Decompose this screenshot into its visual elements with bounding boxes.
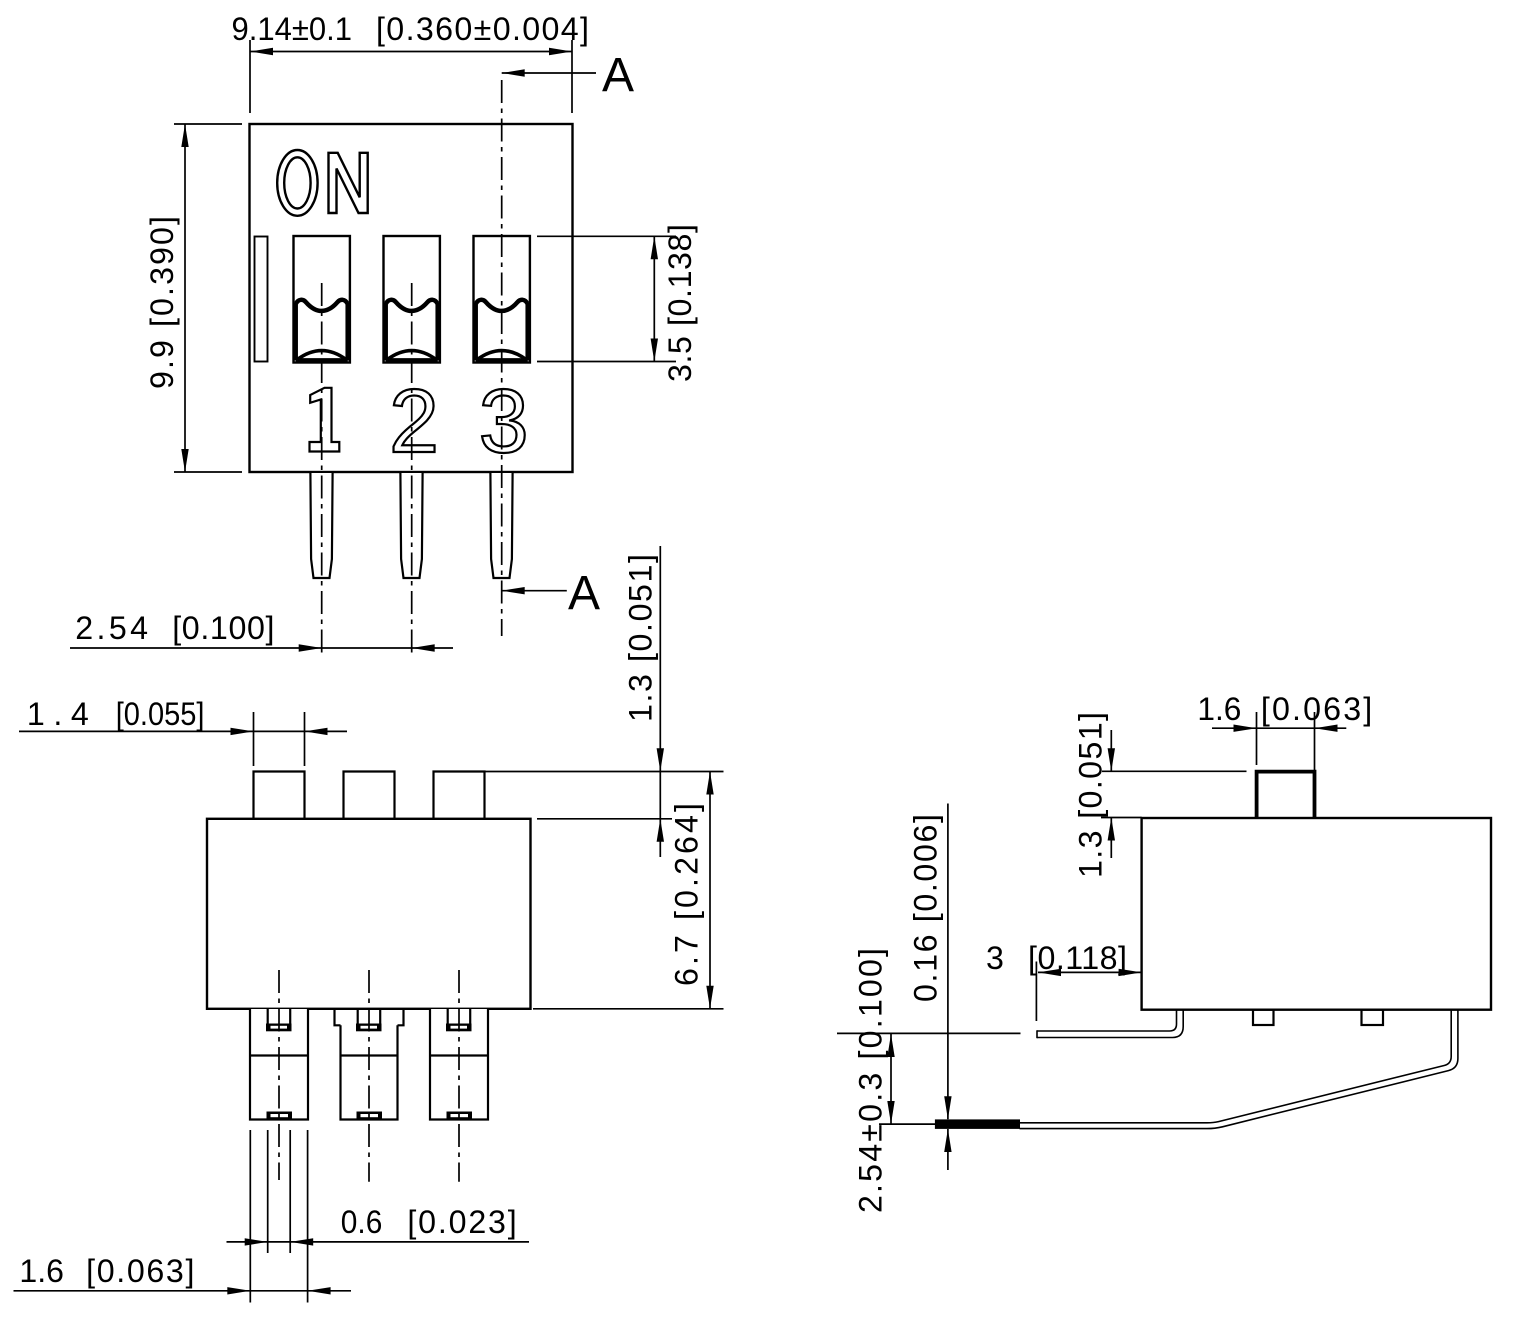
slot 3 (474, 236, 530, 363)
extension line from body bottom (533, 1008, 724, 1010)
svg-text:1.3 [0.051]: 1.3 [0.051] (1073, 712, 1109, 878)
slot 2 (384, 236, 440, 363)
svg-text:2.54±0.3 [0.100]: 2.54±0.3 [0.100] (853, 948, 889, 1213)
pin 1 (front view) (310, 473, 332, 578)
body (side view) (1142, 818, 1491, 1010)
svg-text:6.7 [0.264]: 6.7 [0.264] (669, 803, 705, 986)
svg-text:2.54: 2.54 (75, 610, 148, 646)
svg-text:[0.360±0.004]: [0.360±0.004] (376, 11, 589, 47)
bump 1 (254, 772, 305, 819)
centerline pin1 (321, 283, 323, 655)
section arrow A top (502, 72, 596, 74)
svg-text:[0.063]: [0.063] (1261, 691, 1372, 727)
svg-text:3.5 [0.138]: 3.5 [0.138] (662, 224, 698, 382)
svg-text:A: A (602, 49, 634, 102)
svg-text:1.4: 1.4 (27, 696, 89, 732)
pin 1 (bottom view) (250, 1009, 308, 1120)
svg-text:A: A (568, 567, 600, 620)
svg-text:[0.063]: [0.063] (86, 1253, 194, 1289)
pin 3 (front view) (490, 473, 512, 578)
side latch bar (255, 237, 268, 362)
svg-text:[0.023]: [0.023] (407, 1204, 516, 1240)
bump 3 (434, 772, 485, 819)
svg-text:[0.100]: [0.100] (172, 610, 274, 646)
svg-text:1.3 [0.051]: 1.3 [0.051] (623, 554, 659, 722)
svg-text:2: 2 (389, 372, 439, 472)
bump 2 (344, 772, 395, 819)
svg-text:0.6: 0.6 (341, 1204, 383, 1240)
centerline pin2 (bottom view) (368, 970, 370, 1182)
slot 1 (294, 236, 350, 363)
centerline pin1 (bottom view) (278, 970, 280, 1180)
extension line from bump tops (485, 771, 724, 773)
pin 3 (bottom view) (430, 1009, 488, 1120)
pin 2 (bottom view) with wide collar (335, 1009, 404, 1120)
actuator bump (side view) (1257, 772, 1315, 818)
pin B bent with slope (side view) (935, 1010, 1458, 1129)
svg-text:[0.055]: [0.055] (116, 696, 205, 732)
svg-text:3: 3 (986, 940, 1004, 976)
pin A bent left (side view) (1037, 1010, 1183, 1038)
centerline pin3 (bottom view) (458, 970, 460, 1182)
body (bottom-left view) (207, 819, 531, 1009)
centerline pin2 (411, 283, 413, 655)
svg-text:9.9 [0.390]: 9.9 [0.390] (144, 216, 180, 389)
foot 1 (side view) (1253, 1010, 1274, 1025)
ON marking: letter N (329, 153, 368, 213)
foot 2 (side view) (1362, 1010, 1384, 1025)
dim 9.14 line (250, 51, 572, 53)
digit 1 (310, 388, 340, 452)
svg-text:0.16 [0.006]: 0.16 [0.006] (908, 814, 944, 1002)
svg-text:1.6: 1.6 (19, 1253, 64, 1289)
pin 2 (front view) (400, 473, 422, 578)
svg-text:1.6: 1.6 (1197, 691, 1241, 727)
section arrow A bottom (502, 590, 567, 592)
section line A-A through pin3 (501, 80, 503, 636)
switch body outline (250, 124, 573, 472)
svg-text:3: 3 (479, 372, 529, 472)
ON marking: letter O (277, 150, 317, 216)
svg-text:[0.118]: [0.118] (1028, 940, 1127, 976)
